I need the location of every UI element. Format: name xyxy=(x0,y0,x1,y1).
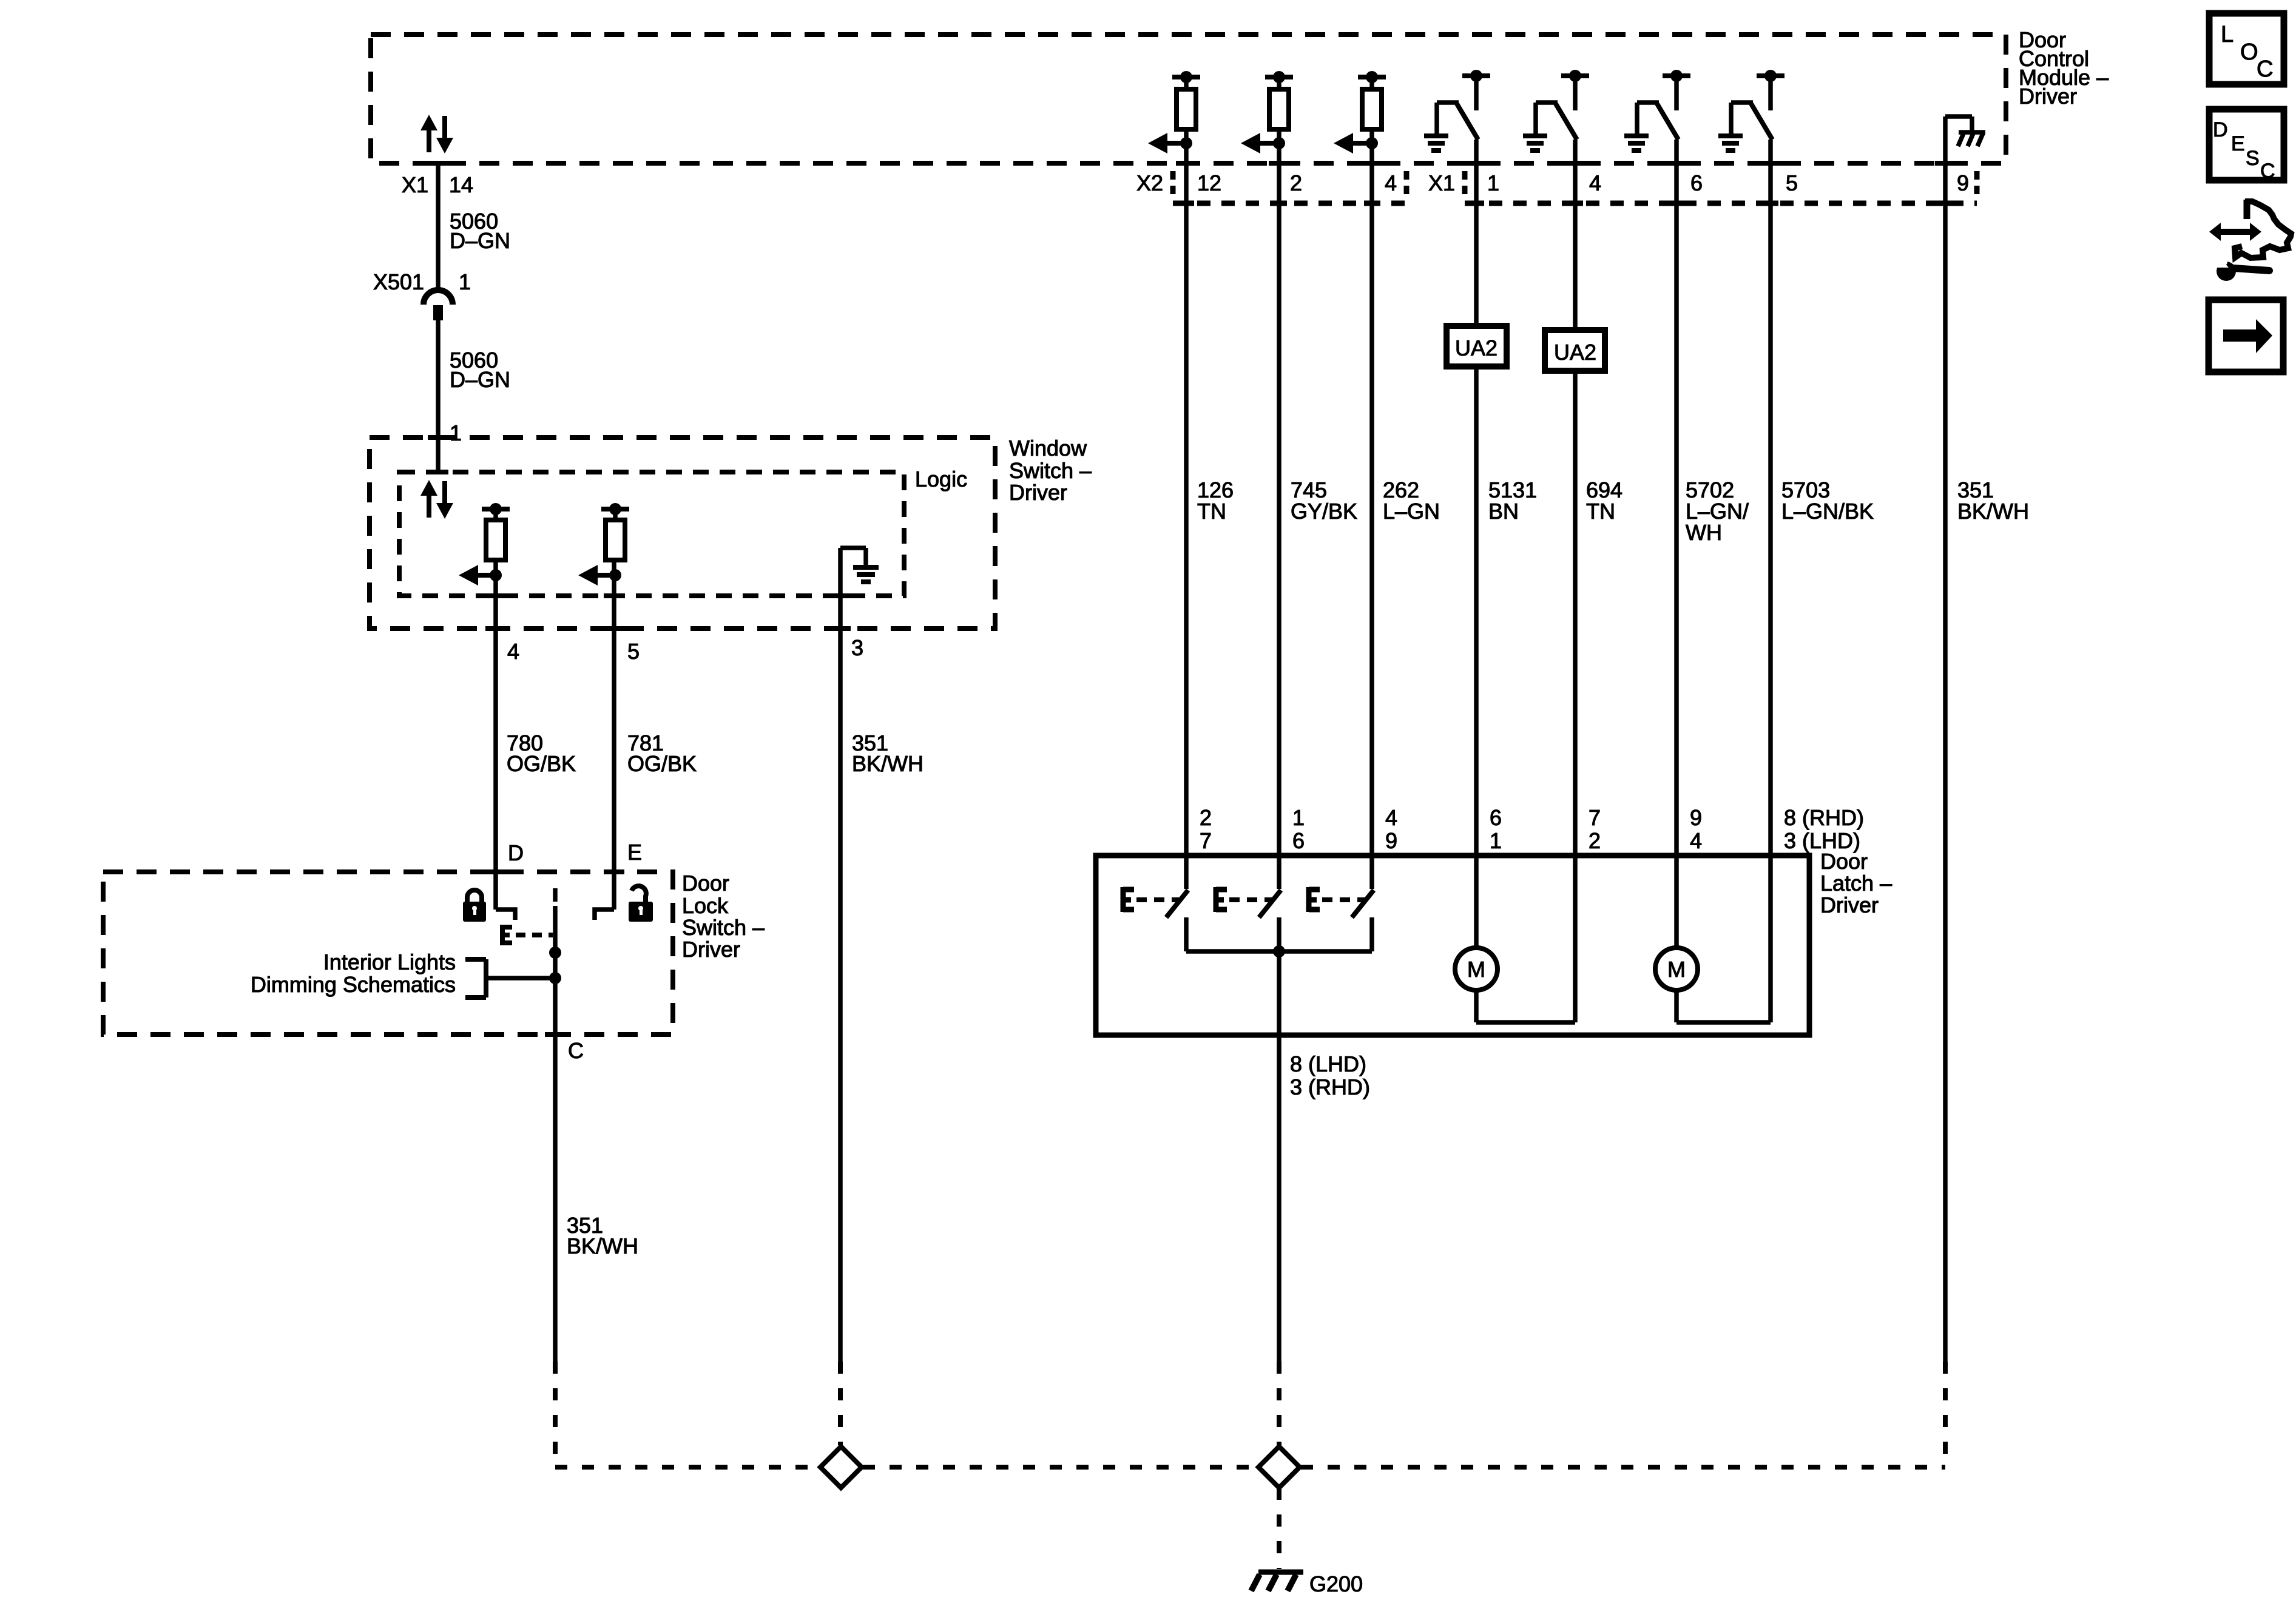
padlock open xyxy=(629,886,653,922)
wire label 126 TN xyxy=(1197,478,1234,524)
dashed wire right drop xyxy=(1943,1362,1948,1465)
resistor window B xyxy=(601,503,629,560)
dashed wire latch drop xyxy=(1277,1362,1281,1445)
label 8 (LHD) 3 (RHD) xyxy=(1290,1052,1370,1099)
svg-text:4: 4 xyxy=(1589,170,1601,195)
wire 262 L-GN xyxy=(1369,129,1374,889)
svg-text:7: 7 xyxy=(1589,805,1601,830)
switch DCM 1 xyxy=(1424,70,1490,150)
svg-text:Dimming Schematics: Dimming Schematics xyxy=(251,972,456,997)
svg-text:Door: Door xyxy=(682,871,729,896)
dashed wire to G200 xyxy=(1277,1488,1281,1569)
wire 126 TN xyxy=(1184,129,1189,889)
pin labels X2 row xyxy=(1136,170,1397,195)
lock E dashes xyxy=(516,933,553,937)
svg-text:6: 6 xyxy=(1490,805,1502,830)
dashed wire left drop xyxy=(553,1362,558,1465)
Door Control Module label xyxy=(2019,27,2109,109)
svg-text:5: 5 xyxy=(1786,170,1798,195)
UA2 box 1 xyxy=(1447,326,1507,366)
svg-text:Switch –: Switch – xyxy=(1009,458,1092,483)
svg-text:7: 7 xyxy=(1200,828,1212,853)
lock pole wire xyxy=(553,906,558,1362)
wire 5702 L-GN/WH xyxy=(1674,140,1679,948)
svg-text:Driver: Driver xyxy=(1009,480,1067,505)
svg-text:3 (RHD): 3 (RHD) xyxy=(1290,1075,1370,1099)
svg-text:8 (LHD): 8 (LHD) xyxy=(1290,1052,1366,1076)
label 780 OG/BK xyxy=(507,731,576,776)
arrow out DCM 2 xyxy=(1241,133,1285,154)
motor 2 bottom wire xyxy=(1676,990,1771,1022)
lock contact E xyxy=(595,910,614,920)
svg-text:TN: TN xyxy=(1197,499,1226,524)
wire 5060 D-GN lower xyxy=(436,320,441,437)
label 5060 D-GN lower xyxy=(450,348,510,392)
latch pin labels 8 (RHD)/3 (LHD) xyxy=(1784,805,1864,853)
label 351 BK/WH left mid xyxy=(852,731,923,776)
wire label 745 GY/BK xyxy=(1291,478,1357,524)
arrow out DCM 3 xyxy=(1334,133,1378,154)
svg-text:Logic: Logic xyxy=(915,467,967,491)
svg-text:12: 12 xyxy=(1197,170,1221,195)
svg-text:4: 4 xyxy=(507,639,519,664)
svg-text:M: M xyxy=(1667,957,1686,982)
switch DCM 4 xyxy=(1718,70,1784,150)
legend connector icon wrench xyxy=(2212,254,2269,281)
svg-text:D–GN: D–GN xyxy=(450,228,510,253)
svg-text:OG/BK: OG/BK xyxy=(627,751,697,776)
Door Latch box xyxy=(1096,856,1809,1035)
motor 1 bottom wire xyxy=(1476,990,1575,1022)
wire label 5131 BN xyxy=(1488,478,1537,524)
Door Lock Switch label xyxy=(682,871,765,962)
label 781 OG/BK xyxy=(627,731,697,776)
svg-text:L: L xyxy=(2221,22,2234,47)
resistor DCM 2 xyxy=(1265,71,1293,129)
resistor DCM 3 xyxy=(1358,71,1386,129)
junction dot lower xyxy=(549,972,561,984)
svg-text:Driver: Driver xyxy=(2019,84,2077,109)
latch pin labels 9/4 xyxy=(1690,805,1702,853)
svg-text:D: D xyxy=(2213,118,2228,141)
label pin 1 window switch xyxy=(450,420,462,445)
wire 780 OG/BK xyxy=(493,560,498,910)
svg-text:Lock: Lock xyxy=(682,893,729,918)
svg-text:Driver: Driver xyxy=(1820,893,1879,917)
D E contact labels xyxy=(508,840,642,865)
svg-text:E: E xyxy=(627,840,642,865)
svg-text:BN: BN xyxy=(1488,499,1519,524)
svg-text:D–GN: D–GN xyxy=(450,367,510,392)
ground G200 xyxy=(1251,1572,1303,1591)
svg-text:UA2: UA2 xyxy=(1554,340,1596,365)
svg-text:GY/BK: GY/BK xyxy=(1291,499,1357,524)
wire 5703 L-GN/BK xyxy=(1768,140,1773,1022)
svg-text:9: 9 xyxy=(1385,828,1397,853)
svg-text:Latch –: Latch – xyxy=(1820,871,1892,896)
svg-text:1: 1 xyxy=(1490,828,1502,853)
latch pin labels 7/2 xyxy=(1589,805,1601,853)
wire 351 BK/WH left mid xyxy=(838,548,843,1362)
wire 745 GY/BK xyxy=(1277,129,1281,889)
crossing dashes on dashed edges xyxy=(428,163,1956,1035)
svg-text:M: M xyxy=(1467,957,1485,982)
latch pin labels 1/6 xyxy=(1292,805,1305,853)
legend connector icon double arrow xyxy=(2209,223,2261,241)
Door Latch label xyxy=(1820,849,1892,917)
resistor DCM 1 xyxy=(1172,71,1200,129)
wire label 5703 L-GN/BK xyxy=(1781,478,1874,524)
svg-text:4: 4 xyxy=(1385,805,1397,830)
window pins 4 5 3 xyxy=(507,635,863,664)
latch switch 1 xyxy=(1123,887,1188,951)
svg-text:8 (RHD): 8 (RHD) xyxy=(1784,805,1864,830)
wire label 694 TN xyxy=(1586,478,1622,524)
interior lights wire xyxy=(486,976,555,981)
Interior Lights label xyxy=(251,950,456,997)
svg-text:C: C xyxy=(2260,160,2275,183)
motor 2 xyxy=(1655,948,1698,990)
wire into window switch xyxy=(436,437,441,472)
svg-text:3: 3 xyxy=(851,635,863,660)
lock pole dashed top xyxy=(553,888,558,902)
Logic label xyxy=(915,467,967,491)
splice diamond 1 xyxy=(820,1447,862,1488)
svg-text:TN: TN xyxy=(1586,499,1615,524)
svg-text:E: E xyxy=(2231,132,2245,155)
ground bus dashed xyxy=(555,1465,1945,1470)
svg-text:1: 1 xyxy=(450,420,462,445)
wire 5131 BN xyxy=(1474,140,1479,948)
wire label 262 L-GN xyxy=(1383,478,1440,524)
svg-text:WH: WH xyxy=(1686,520,1722,545)
ground window logic xyxy=(840,548,879,582)
label 351 BK/WH bottom left xyxy=(567,1213,638,1258)
padlock closed xyxy=(463,890,486,922)
inline connector X501 xyxy=(424,290,453,320)
svg-text:4: 4 xyxy=(1690,828,1702,853)
connector strip X2 xyxy=(1173,171,1406,203)
latch switch bus xyxy=(1186,945,1372,957)
svg-text:2: 2 xyxy=(1200,805,1212,830)
Window Switch label xyxy=(1009,436,1092,505)
switch DCM 3 xyxy=(1624,70,1690,150)
dashed wire window-ground drop xyxy=(838,1362,843,1445)
latch switch 3 xyxy=(1309,887,1374,951)
wire 781 OG/BK xyxy=(612,560,616,910)
svg-text:9: 9 xyxy=(1957,170,1969,195)
window up/down arrow symbol (switch) xyxy=(420,480,453,519)
svg-text:1: 1 xyxy=(1487,170,1499,195)
X1 pin 14 labels xyxy=(402,172,473,197)
latch switch 2 xyxy=(1216,887,1281,951)
lock contact D xyxy=(496,910,515,920)
resistor window A xyxy=(482,503,510,560)
latch pin labels 4/9 xyxy=(1385,805,1397,853)
C pin label xyxy=(568,1038,584,1063)
Window Switch box xyxy=(370,437,995,629)
interior lights bracket xyxy=(465,959,486,998)
svg-text:6: 6 xyxy=(1690,170,1703,195)
svg-text:D: D xyxy=(508,840,524,865)
svg-text:X1: X1 xyxy=(1428,170,1455,195)
connector strip X1 xyxy=(1465,171,1977,203)
svg-text:C: C xyxy=(568,1038,584,1063)
G200 label xyxy=(1309,1571,1363,1596)
Logic box xyxy=(399,472,904,596)
pin labels X1 row xyxy=(1428,170,1969,195)
svg-text:O: O xyxy=(2240,39,2258,65)
junction dot upper xyxy=(549,947,561,959)
svg-text:X501: X501 xyxy=(373,269,424,294)
wire 5060 D-GN upper xyxy=(436,163,441,290)
motor 1 xyxy=(1455,948,1497,990)
label 5060 D-GN upper xyxy=(450,209,510,253)
svg-text:Driver: Driver xyxy=(682,937,740,962)
svg-text:1: 1 xyxy=(1292,805,1305,830)
svg-text:Window: Window xyxy=(1009,436,1087,461)
arrow out DCM 1 xyxy=(1148,133,1192,154)
svg-text:Interior Lights: Interior Lights xyxy=(323,950,456,974)
svg-text:UA2: UA2 xyxy=(1455,336,1497,360)
Door Lock Switch box xyxy=(103,872,673,1035)
svg-text:BK/WH: BK/WH xyxy=(852,751,923,776)
svg-text:14: 14 xyxy=(449,172,473,197)
arrow out window B xyxy=(578,565,621,586)
splice diamond 2 xyxy=(1258,1447,1300,1488)
latch pin labels 6/1 xyxy=(1490,805,1502,853)
window up/down arrow symbol (DCM) xyxy=(420,115,453,154)
svg-text:9: 9 xyxy=(1690,805,1702,830)
svg-text:Switch –: Switch – xyxy=(682,915,765,940)
svg-text:L–GN/BK: L–GN/BK xyxy=(1781,499,1874,524)
latch pin labels 2/7 xyxy=(1200,805,1212,853)
svg-text:1: 1 xyxy=(459,269,471,294)
svg-text:6: 6 xyxy=(1292,828,1305,853)
wire label 351 BK/WH right xyxy=(1957,478,2029,524)
svg-text:S: S xyxy=(2246,147,2260,170)
svg-text:5: 5 xyxy=(627,639,640,664)
wire 351 BK/WH right xyxy=(1943,116,1948,1362)
svg-text:4: 4 xyxy=(1385,170,1397,195)
svg-text:G200: G200 xyxy=(1309,1571,1363,1596)
legend DESC box xyxy=(2209,109,2284,183)
wire 694 TN xyxy=(1573,140,1578,1022)
chassis ground hook DCM xyxy=(1945,116,1985,146)
svg-text:2: 2 xyxy=(1589,828,1601,853)
svg-text:Door: Door xyxy=(1820,849,1868,874)
svg-text:BK/WH: BK/WH xyxy=(567,1234,638,1258)
svg-text:OG/BK: OG/BK xyxy=(507,751,576,776)
svg-text:2: 2 xyxy=(1290,170,1302,195)
svg-text:L–GN: L–GN xyxy=(1383,499,1440,524)
legend LOC box xyxy=(2209,13,2284,84)
legend arrow box xyxy=(2209,300,2283,372)
UA2 box 2 xyxy=(1545,330,1605,371)
svg-text:X1: X1 xyxy=(402,172,428,197)
svg-text:X2: X2 xyxy=(1136,170,1163,195)
switch DCM 2 xyxy=(1523,70,1589,150)
svg-text:C: C xyxy=(2257,56,2273,82)
latch center wire xyxy=(1277,951,1281,1362)
arrow out window A xyxy=(459,565,502,586)
svg-text:BK/WH: BK/WH xyxy=(1957,499,2029,524)
wire label 5702 L-GN/WH xyxy=(1686,478,1749,545)
lock E bracket xyxy=(502,925,512,945)
Door Control Module box xyxy=(371,35,2006,163)
legend connector icon outline xyxy=(2235,200,2291,258)
X501 labels xyxy=(373,269,471,294)
